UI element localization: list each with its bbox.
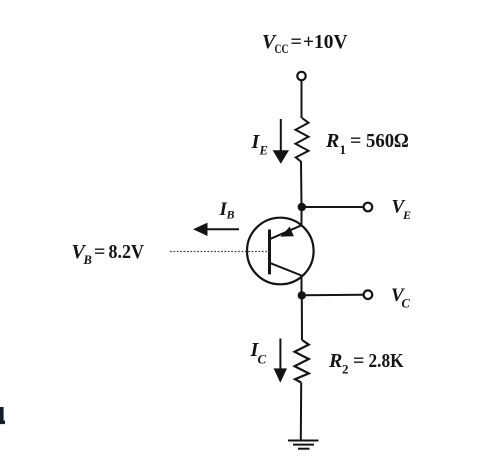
node Vcc terminal (297, 72, 305, 80)
resistor R2 (295, 340, 309, 383)
svg-text:IC: IC (250, 339, 267, 367)
wire node E to transistor emitter (301, 207, 303, 226)
wire Vcc terminal to R1 (301, 81, 303, 119)
svg-text:VC: VC (391, 285, 411, 311)
node VC terminal (364, 290, 373, 299)
wire R2 to ground (300, 383, 302, 441)
svg-text:VCC=+10V: VCC=+10V (262, 31, 348, 56)
svg-text:IE: IE (251, 131, 268, 158)
wire node E to VE terminal (302, 206, 364, 208)
current arrow IB (200, 228, 239, 230)
svg-text:R2=2.8K: R2=2.8K (328, 350, 404, 377)
ground (288, 441, 319, 449)
svg-text:VE: VE (392, 197, 412, 223)
wire node C to R2 (301, 295, 303, 340)
wire transistor collector to node C (301, 276, 303, 296)
wire node C to VC terminal (302, 294, 364, 296)
node E junction (298, 203, 306, 211)
current arrow IC (279, 339, 281, 370)
svg-text:R1=560Ω: R1=560Ω (325, 130, 409, 157)
current arrow IE (280, 119, 282, 151)
node VE terminal (364, 203, 373, 212)
transistor Q1 (247, 218, 314, 285)
stray mark (cropped glyph at left edge) (0, 407, 4, 424)
svg-text:IB: IB (219, 199, 235, 222)
wire R1 to node E (300, 161, 303, 207)
wire base dotted (170, 251, 270, 253)
resistor R1 (296, 118, 309, 161)
node C junction (298, 291, 306, 299)
svg-text:VB=8.2V: VB=8.2V (72, 241, 145, 267)
